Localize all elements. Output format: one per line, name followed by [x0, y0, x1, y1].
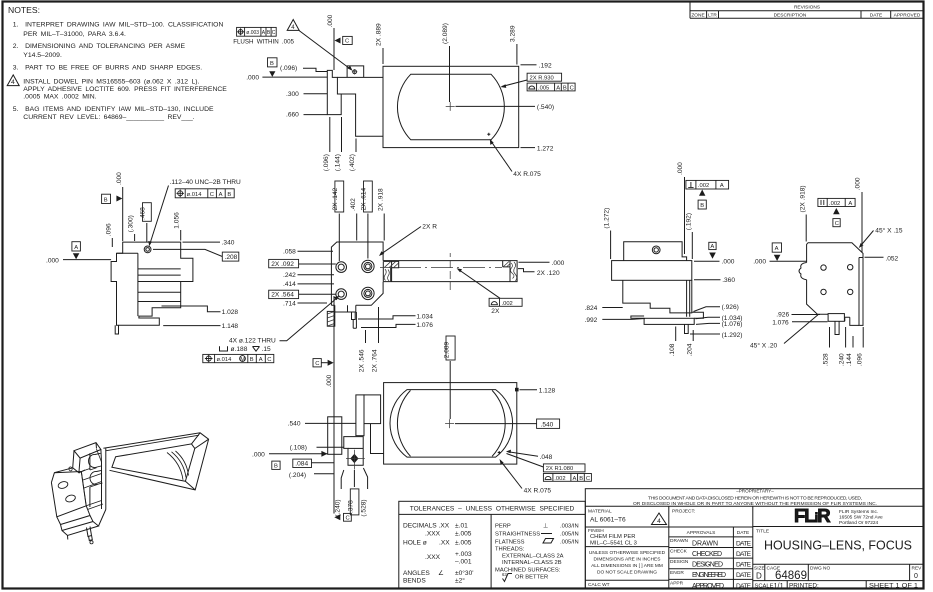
svg-text:(1.292): (1.292) [722, 332, 743, 339]
svg-text:DATE: DATE [736, 583, 752, 590]
svg-text:(.300): (.300) [128, 215, 135, 232]
svg-text:DATE: DATE [736, 551, 752, 558]
svg-text:(1.076): (1.076) [722, 321, 743, 328]
svg-text:DESIGN: DESIGN [670, 559, 689, 565]
svg-text:(.144): (.144) [335, 154, 342, 171]
svg-text:2X .564: 2X .564 [271, 292, 294, 299]
svg-text:(.540): (.540) [537, 104, 554, 111]
svg-text:B: B [104, 197, 108, 203]
svg-text:.340: .340 [222, 240, 235, 247]
svg-text:B: B [270, 61, 274, 67]
svg-text:.540: .540 [541, 421, 554, 428]
svg-text:.002: .002 [554, 476, 565, 482]
svg-text:APPROVALS: APPROVALS [687, 530, 716, 536]
svg-text:M: M [240, 357, 245, 363]
svg-text:.112–40 UNC–2B THRU: .112–40 UNC–2B THRU [170, 179, 241, 186]
svg-text:1/1: 1/1 [774, 581, 784, 590]
svg-text:.000: .000 [326, 374, 333, 387]
svg-text:.096: .096 [856, 353, 863, 366]
svg-text:.002: .002 [502, 301, 513, 307]
svg-text:5. BAG ITEMS AND IDENTIFY IAW: 5. BAG ITEMS AND IDENTIFY IAW MIL–STD–13… [13, 106, 214, 113]
svg-text:(.402): (.402) [349, 154, 356, 171]
svg-text:2X: 2X [491, 308, 500, 315]
svg-text:TITLE: TITLE [756, 529, 769, 535]
svg-text:.002: .002 [829, 201, 840, 207]
svg-text:(.528): (.528) [361, 499, 368, 516]
svg-text:.000: .000 [46, 258, 59, 265]
svg-text:C: C [835, 221, 839, 227]
svg-text:.XX: .XX [439, 540, 450, 547]
svg-text:A: A [775, 246, 779, 252]
svg-text:B: B [250, 357, 254, 363]
svg-text:2X .918: 2X .918 [377, 188, 384, 211]
svg-text:.000: .000 [722, 259, 735, 266]
svg-text:C: C [315, 361, 319, 367]
svg-text:4: 4 [657, 518, 661, 525]
svg-text:2.089: 2.089 [443, 341, 450, 358]
svg-text:DECIMALS .XX: DECIMALS .XX [403, 523, 450, 530]
svg-text:EXTERNAL–CLASS 2A: EXTERNAL–CLASS 2A [502, 554, 564, 560]
svg-text:⊥: ⊥ [543, 523, 548, 530]
svg-text:.242: .242 [283, 272, 296, 279]
svg-text:.360: .360 [722, 277, 735, 284]
svg-text:.000: .000 [252, 451, 265, 458]
svg-text:C: C [346, 516, 350, 522]
svg-text:(1.272): (1.272) [604, 208, 611, 229]
svg-text:(.096): (.096) [280, 65, 297, 72]
svg-text:B: B [274, 464, 278, 470]
svg-text:A: A [74, 245, 78, 251]
svg-text:PER MIL–T–31000, PARA 3.6.4.: PER MIL–T–31000, PARA 3.6.4. [23, 31, 126, 38]
svg-text:CHECKED: CHECKED [692, 551, 722, 558]
svg-text:C: C [345, 39, 349, 45]
svg-text:64869: 64869 [775, 570, 807, 582]
svg-text:C: C [210, 192, 214, 198]
svg-text:APPLY ADHESIVE LOCTITE 609. P: APPLY ADHESIVE LOCTITE 609. PRESS FIT IN… [23, 86, 227, 93]
svg-text:FLiR: FLiR [794, 505, 830, 526]
svg-text:APPROVED: APPROVED [692, 583, 724, 590]
svg-text:.540: .540 [288, 420, 301, 427]
svg-text:.052: .052 [885, 256, 898, 263]
svg-text:C: C [586, 476, 590, 482]
svg-text:.714: .714 [283, 301, 296, 308]
svg-text:.414: .414 [283, 281, 296, 288]
svg-text:HOLE ø: HOLE ø [403, 540, 427, 547]
svg-text:AL 6061–T6: AL 6061–T6 [590, 517, 626, 524]
svg-text:1.148: 1.148 [222, 323, 239, 330]
svg-text:DWG NO: DWG NO [810, 566, 831, 572]
svg-text:1.076: 1.076 [416, 322, 433, 329]
svg-text:DRAWN: DRAWN [670, 538, 688, 544]
svg-text:ø.014: ø.014 [217, 357, 233, 363]
svg-text:2X .120: 2X .120 [537, 270, 560, 277]
svg-text:CHECK: CHECK [670, 549, 688, 555]
svg-text:.208: .208 [225, 254, 238, 261]
svg-text:FLIR Systems Inc.: FLIR Systems Inc. [839, 509, 878, 515]
svg-text:.240: .240 [839, 353, 846, 366]
svg-text:(.926): (.926) [722, 304, 739, 311]
svg-text:.15: .15 [262, 346, 271, 353]
svg-text:DATE: DATE [870, 12, 882, 18]
svg-text:PRINTED:: PRINTED: [789, 583, 819, 590]
svg-text:.000: .000 [116, 172, 123, 185]
svg-text:THIS DOCUMENT AND DATA DISCLOS: THIS DOCUMENT AND DATA DISCLOSED HEREIN … [648, 496, 862, 502]
svg-text:2X .142: 2X .142 [332, 187, 339, 210]
svg-text:.002: .002 [698, 183, 709, 189]
svg-text:SHEET 1 OF 1: SHEET 1 OF 1 [869, 583, 918, 590]
svg-text:ø.014: ø.014 [187, 192, 203, 198]
svg-text:.000: .000 [552, 260, 565, 267]
svg-text:FLUSH WITHIN .005: FLUSH WITHIN .005 [233, 39, 294, 46]
svg-text:.000: .000 [327, 14, 334, 27]
svg-text:DESCRIPTION: DESCRIPTION [774, 12, 807, 18]
svg-text:±.005: ±.005 [455, 540, 472, 547]
svg-text:ENGINEERED: ENGINEERED [692, 572, 726, 579]
svg-text:.204: .204 [686, 343, 693, 356]
svg-text:A: A [720, 183, 724, 189]
svg-text:B: B [227, 192, 231, 198]
svg-text:±.01: ±.01 [455, 523, 468, 530]
svg-text:(.096): (.096) [323, 154, 330, 171]
svg-text:.192: .192 [539, 62, 552, 69]
svg-text:2X .889: 2X .889 [376, 23, 383, 46]
svg-text:SCALE: SCALE [755, 583, 774, 589]
svg-text:A: A [573, 476, 577, 482]
svg-text:.000: .000 [753, 259, 766, 266]
svg-text:REV: REV [912, 566, 923, 572]
svg-text:TOLERANCES – UNLESS OTHERWISE: TOLERANCES – UNLESS OTHERWISE SPECIFIED [410, 506, 575, 513]
svg-text:DATE: DATE [737, 530, 749, 536]
svg-text:A: A [219, 192, 223, 198]
svg-text:.144: .144 [846, 353, 853, 366]
svg-text:.005/IN: .005/IN [560, 540, 579, 546]
svg-text:B: B [563, 85, 567, 91]
svg-text:+.003: +.003 [455, 551, 472, 558]
svg-text:DRAWN: DRAWN [692, 540, 718, 547]
svg-text:REVISIONS: REVISIONS [794, 5, 820, 11]
svg-text:–PROPRIETARY–: –PROPRIETARY– [736, 489, 774, 494]
svg-text:45° X .15: 45° X .15 [875, 226, 903, 234]
svg-text:2X .614: 2X .614 [361, 187, 368, 210]
svg-text:Portland Or 97224: Portland Or 97224 [839, 520, 879, 526]
svg-text:.005/IN: .005/IN [560, 532, 579, 538]
svg-text:1. INTERPRET DRAWING IAW MIL–: 1. INTERPRET DRAWING IAW MIL–STD–100. CL… [13, 22, 224, 29]
svg-text:DESIGNED: DESIGNED [692, 562, 723, 569]
svg-text:.992: .992 [585, 317, 598, 324]
svg-text:BENDS: BENDS [403, 578, 426, 585]
svg-text:–.001: –.001 [455, 559, 472, 566]
svg-text:1.076: 1.076 [772, 320, 789, 327]
svg-text:.000: .000 [246, 74, 259, 81]
svg-text:A: A [556, 85, 560, 91]
svg-text:FLATNESS: FLATNESS [495, 540, 525, 546]
svg-text:Y14.5–2009.: Y14.5–2009. [23, 52, 62, 59]
svg-text:±2°: ±2° [455, 577, 465, 585]
svg-text:APPROVED: APPROVED [894, 12, 921, 18]
svg-text:.528: .528 [823, 353, 830, 366]
svg-text:16505 SW 72nd Ave: 16505 SW 72nd Ave [839, 515, 883, 521]
svg-text:(2.089): (2.089) [442, 23, 449, 44]
svg-text:.660: .660 [286, 112, 299, 119]
svg-text:2X R.930: 2X R.930 [530, 75, 554, 81]
svg-text:.XXX: .XXX [425, 531, 441, 538]
svg-text:.048: .048 [540, 454, 553, 461]
svg-text:INTERNAL–CLASS 2B: INTERNAL–CLASS 2B [502, 560, 562, 566]
svg-text:45° X .20: 45° X .20 [750, 342, 778, 350]
svg-text:A: A [848, 201, 852, 207]
svg-text:(.240): (.240) [334, 499, 341, 516]
svg-text:1.028: 1.028 [222, 309, 239, 316]
svg-text:C: C [570, 85, 574, 91]
svg-text:.000: .000 [677, 162, 684, 175]
svg-text:ZONE: ZONE [691, 12, 704, 18]
svg-text:ENGR: ENGR [670, 570, 684, 576]
svg-text:2X .546: 2X .546 [359, 349, 366, 372]
svg-text:4X R.075: 4X R.075 [524, 488, 552, 495]
svg-text:±0°30': ±0°30' [455, 569, 474, 577]
svg-text:.058: .058 [283, 249, 296, 256]
svg-text:(2X .918): (2X .918) [799, 185, 806, 212]
svg-text:DIMENSIONS ARE IN INCHES: DIMENSIONS ARE IN INCHES [594, 556, 661, 562]
svg-text:.926: .926 [776, 312, 789, 319]
svg-text:DO NOT SCALE DRAWING: DO NOT SCALE DRAWING [597, 569, 657, 575]
svg-text:CALC WT: CALC WT [588, 582, 610, 588]
svg-text:(.192): (.192) [685, 213, 692, 230]
svg-text:2X .764: 2X .764 [372, 349, 379, 372]
svg-text:.XXX: .XXX [425, 554, 441, 561]
svg-text:C: C [267, 357, 271, 363]
svg-text:INSTALL DOWEL PIN MS16555–603: INSTALL DOWEL PIN MS16555–603 (ø.062 X .… [23, 79, 199, 86]
svg-text:STRAIGHTNESS: STRAIGHTNESS [495, 532, 540, 538]
svg-text:1.272: 1.272 [537, 145, 554, 152]
svg-text:3. PART TO BE FREE OF BURRS A: 3. PART TO BE FREE OF BURRS AND SHARP ED… [13, 64, 203, 71]
svg-text:2X R: 2X R [422, 223, 437, 230]
svg-text:ø.003: ø.003 [246, 30, 259, 36]
svg-text:DATE: DATE [736, 540, 752, 547]
svg-text:2X R1.080: 2X R1.080 [546, 466, 573, 472]
svg-text:ALL DIMENSIONS IN [ ] ARE MM: ALL DIMENSIONS IN [ ] ARE MM [591, 563, 663, 569]
svg-text:.402: .402 [350, 198, 357, 211]
svg-text:4X ø.122 THRU: 4X ø.122 THRU [229, 338, 276, 345]
svg-text:.468: .468 [140, 207, 147, 220]
svg-text:OR BETTER: OR BETTER [515, 575, 548, 581]
svg-text:1.034: 1.034 [416, 313, 433, 320]
svg-text:±.005: ±.005 [455, 531, 472, 538]
svg-text:.084: .084 [295, 461, 308, 468]
svg-text:MATERIAL: MATERIAL [588, 509, 612, 515]
svg-text:4X R.075: 4X R.075 [513, 171, 541, 178]
svg-text:4: 4 [11, 79, 15, 86]
svg-text:.300: .300 [286, 91, 299, 98]
svg-text:NOTES:: NOTES: [8, 5, 40, 15]
svg-text:DATE: DATE [736, 572, 752, 579]
svg-text:DATE: DATE [736, 562, 752, 569]
svg-text:.003/IN: .003/IN [560, 524, 579, 530]
svg-text:2. DIMENSIONING AND TOLERANCI: 2. DIMENSIONING AND TOLERANCING PER ASME [13, 43, 186, 50]
svg-text:(.108): (.108) [290, 445, 307, 452]
svg-text:CURRENT REV LEVEL: 64869–_____: CURRENT REV LEVEL: 64869–__________ REV_… [23, 114, 194, 121]
svg-text:APPR: APPR [670, 580, 684, 586]
svg-text:1.056: 1.056 [174, 212, 181, 229]
svg-text:THREADS:: THREADS: [495, 547, 525, 553]
svg-text:.378: .378 [348, 500, 355, 513]
svg-text:.108: .108 [669, 343, 676, 356]
svg-text:MIL–C–5541 CL 3: MIL–C–5541 CL 3 [590, 540, 637, 546]
svg-text:2X .092: 2X .092 [271, 261, 294, 268]
svg-text:1.128: 1.128 [539, 387, 556, 394]
svg-text:PERP: PERP [495, 524, 511, 530]
svg-text:A: A [259, 357, 263, 363]
svg-text:.096: .096 [105, 223, 112, 236]
svg-text:.0005 MAX .0002 MIN.: .0005 MAX .0002 MIN. [23, 94, 96, 101]
svg-text:HOUSING–LENS, FOCUS: HOUSING–LENS, FOCUS [764, 539, 912, 553]
svg-text:D: D [756, 572, 762, 581]
svg-text:A: A [710, 244, 714, 250]
svg-text:ø.188: ø.188 [231, 346, 248, 353]
svg-text:B: B [579, 476, 583, 482]
svg-text:PROJECT:: PROJECT: [672, 509, 695, 515]
svg-text:LTR: LTR [708, 12, 717, 18]
svg-text:3.289: 3.289 [510, 25, 517, 42]
svg-text:ANGLES: ANGLES [403, 570, 430, 577]
svg-text:C: C [272, 30, 276, 36]
svg-text:0: 0 [914, 573, 918, 580]
svg-text:∠: ∠ [438, 569, 444, 577]
svg-text:UNLESS OTHERWISE SPECIFIED: UNLESS OTHERWISE SPECIFIED [589, 550, 666, 556]
svg-text:B: B [700, 203, 704, 209]
svg-text:CHEM FILM PER: CHEM FILM PER [590, 534, 635, 540]
svg-text:.005: .005 [538, 85, 549, 91]
svg-text:.000: .000 [854, 177, 861, 190]
svg-text:.824: .824 [585, 305, 598, 312]
svg-text:(.204): (.204) [289, 472, 306, 479]
